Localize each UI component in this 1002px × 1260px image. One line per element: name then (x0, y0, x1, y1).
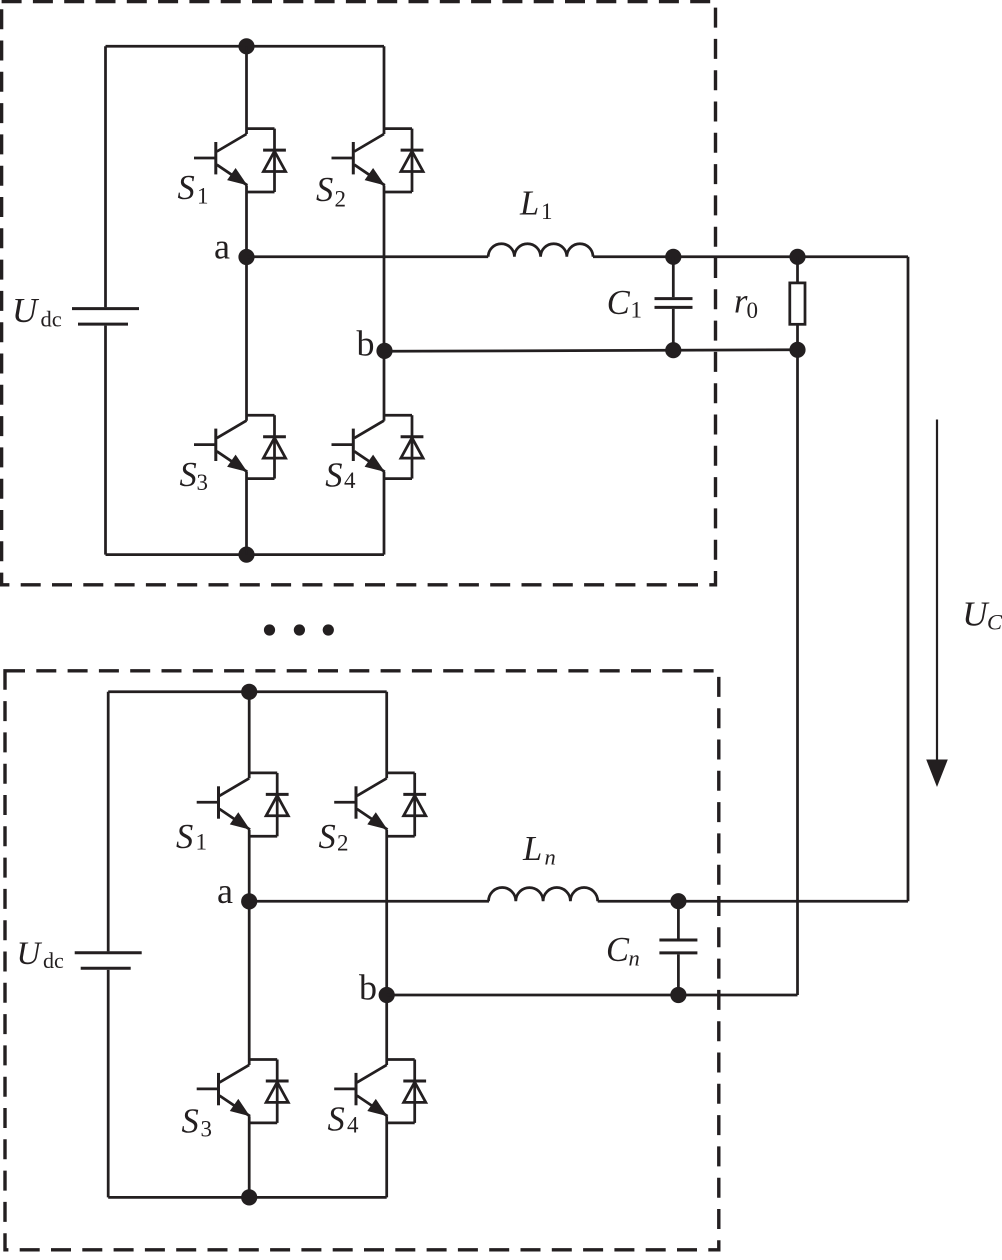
svg-text:dc: dc (43, 948, 64, 973)
svg-text:S: S (328, 1101, 345, 1139)
node a (module 1) junction dot (238, 249, 254, 265)
label S1 module n (176, 818, 207, 856)
svg-text:S: S (325, 457, 342, 495)
svg-text:S: S (180, 456, 197, 494)
svg-text:1: 1 (631, 298, 643, 323)
label b (module n) (359, 967, 377, 1007)
label a (module n) (217, 871, 233, 911)
svg-text:C: C (987, 610, 1002, 635)
junction dot: C1 top (665, 249, 681, 265)
svg-text:1: 1 (197, 184, 209, 209)
wire: module n left leg (battery branch) (107, 692, 110, 1198)
label S2 module n (319, 818, 349, 856)
svg-text:n: n (545, 845, 556, 870)
wire: module 1 top DC rail (106, 45, 385, 48)
inductor L1 (488, 244, 593, 257)
junction dot: Cn bottom (670, 987, 686, 1003)
wire: module n node a to inductor Ln (249, 900, 489, 903)
svg-text:3: 3 (197, 470, 209, 495)
wire: inductor L1 to top-right corner (593, 255, 908, 258)
capacitor C1 plates (655, 299, 693, 308)
svg-text:2: 2 (337, 830, 349, 855)
transistor S4 of module n (IGBT with antiparallel diode) (334, 1060, 426, 1123)
label b (module 1) (357, 324, 375, 364)
ellipsis dots between modules (264, 624, 275, 635)
svg-text:S: S (178, 169, 195, 207)
svg-text:b: b (359, 967, 377, 1007)
capacitor C1 lead top (672, 257, 675, 297)
capacitor Cn lead top (677, 901, 680, 938)
inductor Ln (489, 888, 598, 902)
svg-text:S: S (319, 818, 336, 856)
wire: module n bottom DC rail (108, 1196, 387, 1199)
resistor r0 lead bottom (796, 324, 799, 350)
dashed boundary box of inverter module 1 (2, 2, 716, 585)
label S4 module n (328, 1101, 360, 1139)
wire: node a to inductor L1 (247, 255, 489, 258)
svg-text:U: U (12, 291, 40, 330)
junction dot: resistor r0 top (789, 249, 805, 265)
arrow for output voltage UC (936, 420, 938, 764)
label Ln (522, 830, 556, 870)
capacitor C1 lead bottom (672, 309, 675, 351)
label C1 (607, 284, 642, 322)
transistor S4 (IGBT with antiparallel diode) (332, 415, 424, 478)
label S1 (178, 169, 209, 209)
resistor r0 body (790, 283, 805, 324)
label S4 (325, 457, 356, 495)
label S3 module n (182, 1102, 213, 1141)
transistor S1 of module n (IGBT with antiparallel diode) (197, 773, 289, 836)
wire: module 1 bottom DC rail (106, 553, 385, 556)
transistor S3 of module n (IGBT with antiparallel diode) (197, 1060, 289, 1123)
junction dot: resistor r0 bottom (789, 342, 805, 358)
label Udc module 1 (12, 291, 62, 332)
wire: module n node b to vertical bus (387, 994, 798, 997)
svg-text:a: a (214, 227, 230, 267)
wire: module n right bridge leg (phase b) (385, 692, 388, 1198)
wire: inductor Ln to right bus (598, 900, 908, 903)
junction dot: Cn top (670, 893, 686, 909)
svg-text:n: n (629, 946, 640, 971)
svg-text:L: L (522, 830, 542, 868)
svg-text:0: 0 (747, 298, 759, 323)
wire: module 1 left bridge leg (phase a) (245, 46, 248, 554)
wire: module n top DC rail (108, 690, 387, 693)
capacitor Cn plates (659, 940, 697, 953)
transistor S2 of module n (IGBT with antiparallel diode) (334, 773, 426, 836)
junction dot: C1 bottom (665, 342, 681, 358)
svg-text:S: S (316, 171, 333, 209)
svg-text:3: 3 (201, 1116, 213, 1141)
battery Udc module n (short plate) (81, 967, 131, 970)
wire: module 1 left leg (battery branch) (104, 46, 107, 554)
wire: module 1 right bridge leg (phase b) (383, 46, 386, 554)
label L1 (519, 184, 553, 224)
wire: module n left bridge leg (phase a) (248, 692, 251, 1198)
battery Udc module n (long plate) (75, 951, 142, 954)
node a (module n) junction dot (241, 893, 257, 909)
label S3 (180, 456, 209, 495)
svg-text:S: S (182, 1102, 199, 1140)
node b (module n) junction dot (379, 987, 395, 1003)
battery Udc module 1 (short plate) (78, 323, 128, 326)
wire: long vertical bus on right from module 1 output to module n output a (907, 257, 910, 901)
label r0 (734, 283, 758, 323)
junction dot on module n top rail (241, 684, 257, 700)
svg-text:4: 4 (347, 1112, 359, 1137)
transistor S2 (IGBT with antiparallel diode) (332, 129, 424, 192)
svg-text:4: 4 (344, 468, 356, 493)
svg-text:C: C (606, 931, 630, 969)
label a (module 1) (214, 227, 230, 267)
svg-text:a: a (217, 871, 233, 911)
node b (module 1) junction dot (376, 343, 392, 359)
label Cn (606, 931, 640, 971)
svg-text:1: 1 (541, 199, 553, 224)
junction dot on module 1 top rail (238, 38, 254, 54)
label Udc module n (17, 936, 65, 973)
svg-text:2: 2 (335, 186, 347, 211)
wire: node b to load branch (385, 350, 798, 352)
dashed boundary box of inverter module n (5, 671, 719, 1250)
junction dot on module 1 bottom rail (238, 547, 254, 563)
label UC (962, 595, 1002, 635)
label S2 (316, 171, 346, 211)
svg-text:U: U (17, 936, 43, 972)
resistor r0 lead top (796, 257, 799, 283)
svg-text:L: L (519, 184, 539, 222)
transistor S1 (IGBT with antiparallel diode) (194, 129, 286, 192)
svg-text:S: S (176, 818, 193, 856)
svg-text:b: b (357, 324, 375, 364)
battery Udc module 1 (long plate) (72, 307, 139, 310)
capacitor Cn lead bottom (677, 954, 680, 995)
wire: long vertical bus from r0 bottom to module n output b (796, 350, 799, 995)
transistor S3 (IGBT with antiparallel diode) (194, 415, 286, 478)
svg-text:C: C (607, 284, 631, 322)
svg-text:1: 1 (196, 830, 208, 855)
svg-text:dc: dc (41, 307, 62, 332)
junction dot on module n bottom rail (241, 1189, 257, 1205)
